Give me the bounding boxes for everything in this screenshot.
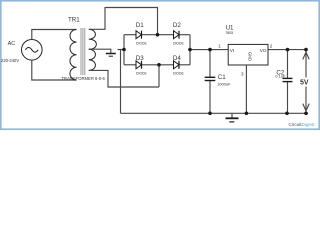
svg-text:AC: AC [8,41,16,47]
svg-text:VO: VO [260,48,267,53]
svg-text:GND: GND [247,52,252,61]
svg-text:TRANSFORMER 6-0-6: TRANSFORMER 6-0-6 [62,76,106,81]
svg-text:DIODE: DIODE [136,72,147,76]
svg-text:D3: D3 [136,55,144,62]
svg-text:C1: C1 [218,74,226,81]
svg-text:7805: 7805 [225,31,233,35]
svg-text:DIODE: DIODE [136,41,147,45]
svg-text:DIODE: DIODE [173,41,184,45]
svg-text:3: 3 [241,71,244,76]
svg-text:220-240V: 220-240V [1,58,19,63]
svg-text:5V: 5V [300,80,309,87]
svg-text:2: 2 [270,43,273,48]
svg-text:CircuitDigest: CircuitDigest [289,122,316,127]
svg-text:D4: D4 [173,55,181,62]
svg-text:D2: D2 [173,22,181,29]
svg-text:DIODE: DIODE [173,72,184,76]
svg-text:0.1uF: 0.1uF [275,73,286,78]
svg-text:1000uF: 1000uF [217,81,231,86]
svg-text:D1: D1 [136,22,144,29]
svg-text:VI: VI [230,48,234,53]
svg-text:1: 1 [218,43,221,48]
svg-text:TR1: TR1 [68,17,80,24]
